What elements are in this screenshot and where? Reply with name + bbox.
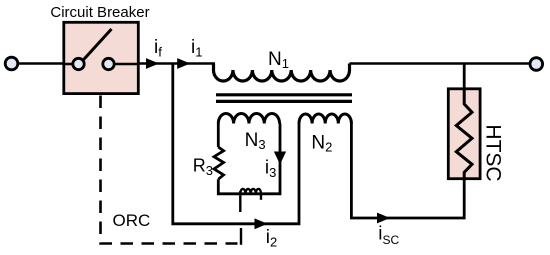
svg-text:i2: i2 <box>266 227 277 250</box>
svg-text:HTSC: HTSC <box>482 124 505 181</box>
circuit breaker box CB <box>64 22 139 93</box>
arrow isc <box>377 213 390 224</box>
wire: trip coil lower stub to ORC <box>240 228 242 245</box>
svg-text:if: if <box>154 37 162 60</box>
wire: N3 left leg upper <box>217 124 220 148</box>
transformer core <box>216 93 352 96</box>
wire: breaker internal left <box>64 63 74 66</box>
svg-text:N3: N3 <box>245 130 266 152</box>
arrow i1 <box>177 58 190 69</box>
switch blade <box>83 29 112 60</box>
svg-text:ORC: ORC <box>113 211 151 230</box>
left terminal <box>5 57 18 70</box>
arrow if <box>146 58 159 69</box>
svg-text:R3: R3 <box>193 155 213 178</box>
wire: trip coil left stub <box>239 191 241 212</box>
wire: breaker to N1 coil <box>138 62 215 65</box>
trip coil <box>240 189 261 194</box>
svg-text:Circuit Breaker: Circuit Breaker <box>50 4 149 21</box>
svg-text:iSC: iSC <box>378 224 399 248</box>
svg-text:N1: N1 <box>268 49 289 71</box>
arrow i2 <box>255 218 268 229</box>
wire: breaker internal right <box>113 63 138 66</box>
wire: left terminal to breaker <box>18 62 64 65</box>
inductor N2 <box>299 114 351 124</box>
resistor HTSC zigzag <box>456 89 472 179</box>
inductor N1 <box>214 64 350 82</box>
switch contact right <box>103 58 114 69</box>
wire: N2 right leg to HTSC bottom <box>351 123 464 219</box>
svg-text:N2: N2 <box>311 133 332 155</box>
wire: N1 to right terminal <box>350 62 530 65</box>
switch contact left <box>73 58 84 69</box>
HTSC box <box>448 89 480 179</box>
wire: N3 left leg lower and bottom <box>218 124 280 194</box>
inductor N3 <box>218 113 279 123</box>
wire: trip coil right tick <box>260 194 262 200</box>
arrow i3 <box>274 152 286 165</box>
ORC dashed line <box>101 96 238 244</box>
right terminal <box>530 58 543 71</box>
wire: junction down to i2 run and up to N2 <box>173 64 299 224</box>
wire: HTSC top stub <box>463 64 466 90</box>
resistor R3 <box>214 147 224 179</box>
svg-text:i1: i1 <box>191 37 202 60</box>
svg-text:i3: i3 <box>265 158 276 181</box>
